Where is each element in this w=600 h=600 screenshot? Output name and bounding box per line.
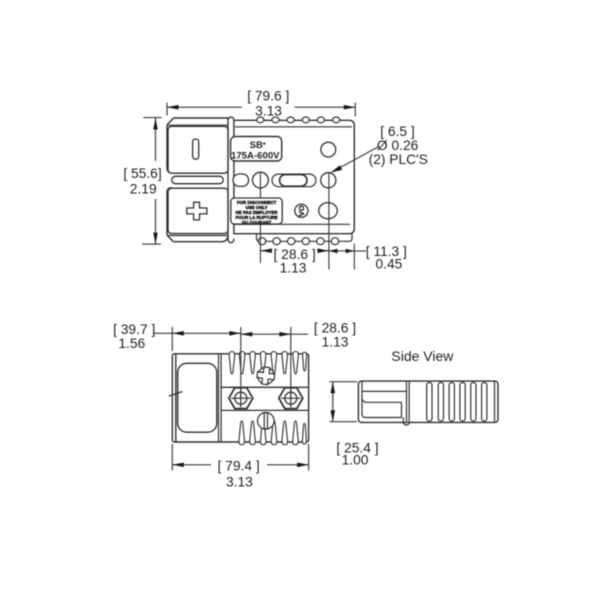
VO flammability mark (295, 204, 308, 217)
bottom flange strip (257, 234, 353, 242)
dim 55.6 extension ticks (142, 118, 162, 245)
minus contact slot (193, 139, 199, 159)
dim 28.6 front extension (353, 244, 355, 270)
dim 55.6 line (155, 118, 157, 244)
svg-text:DU COURANT: DU COURANT (242, 220, 272, 225)
dim 28.6 front line (260, 250, 366, 252)
hex bolt left (229, 388, 253, 409)
svg-text:[ 79.6 ]: [ 79.6 ] (247, 89, 289, 104)
svg-text:[ 6.5 ]: [ 6.5 ] (380, 124, 415, 139)
side view end cap (494, 381, 496, 422)
side view latch details (362, 381, 409, 425)
latch stadium inner (280, 175, 308, 187)
dim 79.4 arrows (172, 463, 308, 468)
upper contact cavity (168, 126, 228, 173)
dim 79.6 arrows (167, 105, 355, 110)
dim 79.4 extensions (172, 444, 308, 471)
svg-text:1.00: 1.00 (342, 452, 369, 467)
front view main body outline (234, 120, 354, 233)
dim 79.6 extension lines (167, 103, 355, 117)
side view body outline (358, 381, 498, 422)
bottom edge bead row (258, 238, 338, 245)
plus contact cross (187, 202, 207, 220)
bottom rib band (239, 421, 307, 445)
dim 55.6 arrows (153, 118, 158, 244)
lower contact cavity (168, 188, 228, 233)
svg-text:[ 55.6]: [ 55.6] (123, 166, 161, 181)
svg-text:1.13: 1.13 (322, 334, 349, 349)
small stadium boss (233, 174, 249, 186)
dim 79.6 line (167, 106, 355, 108)
middle latch slot (172, 176, 223, 183)
front view housing outline (167, 118, 228, 242)
SB rating label (231, 137, 282, 162)
mid band lines (221, 387, 309, 410)
svg-text:VO: VO (297, 205, 306, 216)
svg-text:0.45: 0.45 (375, 257, 402, 272)
svg-text:3.13: 3.13 (226, 475, 253, 490)
svg-text:175A-600V: 175A-600V (231, 150, 280, 161)
dim 28.6 top line (241, 333, 308, 335)
lower right hole (319, 203, 338, 219)
top rib band (229, 352, 307, 374)
hole callout arrow (331, 165, 343, 172)
dim 28.6 top arrows (241, 332, 291, 337)
bottom slotted screw (258, 413, 275, 430)
middle circle boss (253, 172, 269, 188)
dim 25.4 extensions (330, 382, 358, 422)
hole callout leader (332, 147, 378, 172)
dim 39.7 extensions (172, 327, 290, 398)
svg-text:[ 79.4 ]: [ 79.4 ] (218, 458, 260, 473)
svg-text:[ 39.7 ]: [ 39.7 ] (113, 322, 155, 337)
surface tick (169, 392, 183, 397)
svg-text:Ø 0.26: Ø 0.26 (377, 138, 419, 153)
upper right hole (321, 142, 336, 157)
hex bolt right (279, 388, 303, 409)
latch stadium outer (272, 174, 316, 187)
dim 28.6 front arrows (260, 248, 354, 253)
svg-text:1.56: 1.56 (118, 336, 145, 351)
top view cavity opening (178, 363, 217, 432)
svg-text:(2) PLC'S: (2) PLC'S (369, 152, 428, 167)
dim 79.4 line (172, 464, 308, 466)
warning label (231, 198, 282, 225)
side view ribs (427, 383, 487, 422)
svg-text:Side View: Side View (391, 348, 454, 364)
dim 25.4 line (332, 382, 334, 422)
extension line through middle circle (259, 172, 261, 263)
dim 39.7 line (153, 332, 241, 334)
mounting hole A (321, 173, 336, 188)
svg-text:[ 28.6 ]: [ 28.6 ] (314, 320, 356, 335)
top edge bead row (257, 117, 340, 123)
svg-text:3.13: 3.13 (255, 103, 282, 118)
top view outer body (172, 354, 308, 442)
dim 25.4 arrows (331, 382, 336, 422)
svg-text:1.13: 1.13 (280, 260, 307, 275)
extension line through hole A (328, 173, 330, 270)
top phillips screw (256, 366, 275, 385)
dim 39.7 arrows (172, 331, 241, 336)
svg-text:2.19: 2.19 (130, 182, 157, 197)
housing-body dovetail groove (228, 117, 234, 243)
